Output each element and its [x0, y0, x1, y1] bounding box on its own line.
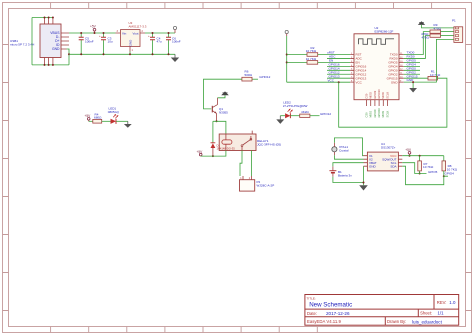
wire R4 to LED1	[102, 120, 111, 122]
svg-text:100nF: 100nF	[85, 40, 94, 44]
svg-text:MOSI: MOSI	[381, 111, 385, 118]
wire ground to LED2	[280, 115, 285, 117]
resistor R8 10.7K pullup	[442, 156, 458, 178]
svg-text:GPIO9: GPIO9	[373, 90, 377, 98]
svg-text:10 7KΩ: 10 7KΩ	[430, 73, 441, 77]
power flag +5V relay	[197, 150, 204, 156]
resistor R11 470	[421, 32, 441, 40]
svg-text:10 7KΩ: 10 7KΩ	[423, 165, 434, 169]
svg-text:JQC-3FF-HS (05): JQC-3FF-HS (05)	[257, 142, 281, 146]
svg-text:Bateria 3v: Bateria 3v	[338, 174, 352, 178]
resistor R5 500	[242, 69, 253, 81]
svg-text:+: +	[99, 34, 101, 38]
wire emitter to relay coil	[213, 121, 226, 134]
junction feed taps	[286, 54, 340, 84]
net label CS0 bottom	[364, 108, 389, 118]
svg-text:470Ω: 470Ω	[434, 26, 442, 30]
svg-text:luis_eduardoct: luis_eduardoct	[412, 319, 443, 324]
svg-text:1.0: 1.0	[449, 300, 456, 305]
svg-text:CS0: CS0	[364, 93, 368, 99]
svg-text:1/1: 1/1	[438, 311, 445, 316]
wire U4 GND down	[363, 166, 365, 185]
wire R11 to P1	[441, 35, 454, 37]
transistor Q1 N3055	[212, 98, 228, 122]
resistor R7 10.7K pullup	[418, 156, 434, 175]
svg-text:P1: P1	[452, 19, 456, 23]
wire LED1 to ground	[116, 120, 128, 122]
resistor R1 10.7K	[428, 70, 441, 81]
wire XTAL2 to X2	[334, 155, 363, 159]
wire SCL net	[402, 163, 426, 174]
net label GPIO12 base	[259, 75, 270, 79]
svg-text:MISO: MISO	[369, 111, 373, 118]
capacitor C5 100nF	[79, 32, 94, 55]
svg-text:TITLE:: TITLE:	[307, 296, 316, 300]
wire B1 to GND net	[333, 177, 364, 183]
pin 3V3 output	[173, 26, 176, 33]
wire TXD0	[404, 32, 430, 55]
ground LED1	[124, 121, 132, 128]
power flag +5V input	[90, 25, 97, 35]
wire EN tap	[287, 61, 307, 63]
svg-text:1N4148-DO-35: 1N4148-DO-35	[217, 147, 236, 151]
svg-text:MOSI: MOSI	[381, 92, 385, 99]
wire SDA net	[402, 166, 448, 185]
resistor R10 4k2	[300, 110, 310, 117]
net label EN	[329, 58, 333, 62]
wire LED2 to R10	[290, 115, 299, 117]
svg-text:Drawn By:: Drawn By:	[387, 319, 406, 324]
power flag VCC P1	[418, 21, 454, 28]
wire ground rail	[69, 53, 175, 55]
svg-text:SCLK: SCLK	[385, 92, 389, 99]
wire R10 to net	[310, 115, 320, 117]
svg-text:GPIO10: GPIO10	[377, 89, 381, 99]
svg-text:GND: GND	[129, 39, 133, 47]
battery B1 3v	[329, 166, 352, 177]
svg-text:GPIO5: GPIO5	[428, 170, 438, 174]
crystal XTAL1	[332, 143, 349, 155]
svg-text:2017-12-26: 2017-12-26	[326, 311, 350, 316]
svg-text:GND: GND	[391, 80, 399, 84]
svg-text:GPIO12: GPIO12	[320, 112, 331, 116]
wire GPIO16	[327, 62, 350, 66]
svg-text:10 7KΩ: 10 7KΩ	[306, 57, 317, 61]
svg-text:GPIO12: GPIO12	[259, 75, 270, 79]
connector P1 header	[452, 19, 463, 43]
wire GPIO0 stub	[404, 66, 420, 70]
wire P1 gnd row	[413, 39, 454, 82]
net label GPIO5 SCL	[428, 170, 438, 174]
wire +5V rail	[69, 32, 175, 34]
wire GPIO0 to R5	[252, 78, 258, 80]
svg-text:+: +	[148, 34, 150, 38]
LED D LED2 LT-2TSUHG	[283, 101, 308, 119]
capacitor C4 47u	[148, 32, 162, 55]
svg-text:Crystal: Crystal	[339, 149, 349, 153]
junction Q1 emitter	[216, 120, 218, 122]
wire GPIO5 stub	[404, 59, 420, 63]
svg-text:SCLK: SCLK	[385, 110, 389, 117]
wire USB shield loop	[32, 18, 69, 65]
svg-text:+5V: +5V	[90, 25, 97, 29]
wire GPIO4 stub	[404, 62, 420, 66]
svg-text:ADC: ADC	[329, 55, 336, 59]
wire +5V to R4	[89, 120, 93, 122]
wire relay coil return	[201, 151, 226, 157]
svg-text:100nF: 100nF	[172, 40, 181, 44]
wire ADC	[327, 55, 350, 59]
wire GPIO2 stub	[404, 70, 420, 74]
svg-text:500Ω: 500Ω	[245, 73, 253, 77]
junction USB ground	[68, 53, 70, 55]
svg-text:micro 5P 7.2 3.4H: micro 5P 7.2 3.4H	[10, 43, 34, 47]
svg-text:GPIO10: GPIO10	[377, 108, 381, 118]
junction GND row	[412, 81, 414, 83]
svg-text:REV:: REV:	[437, 300, 447, 305]
svg-text:GND: GND	[369, 164, 377, 168]
junction USB shield top	[44, 17, 54, 19]
pin EN/RST feed	[285, 30, 288, 36]
svg-text:AMS1117-3.3: AMS1117-3.3	[129, 25, 147, 29]
svg-text:4K2Ω: 4K2Ω	[301, 110, 309, 114]
net label GPIO12 LED2	[320, 112, 331, 116]
capacitor C6 100nF	[166, 32, 181, 55]
power flag +5V RTC	[405, 148, 412, 157]
svg-text:CS0: CS0	[364, 112, 368, 118]
wire GND ESP	[404, 78, 414, 88]
svg-text:10 7KΩ: 10 7KΩ	[306, 49, 317, 53]
wire R1 to VCC net	[339, 78, 447, 127]
LED D LED1 0805G	[108, 107, 119, 124]
relay RELAY1 JQC-3F	[219, 131, 281, 151]
svg-text:WJ28C-A-2P: WJ28C-A-2P	[257, 184, 275, 188]
wire GPIO15 to R1	[404, 74, 428, 78]
ground power rail	[171, 54, 179, 62]
ground ESP	[409, 88, 417, 93]
wire relay contacts to P2	[240, 151, 251, 177]
svg-text:ESP8266-12F: ESP8266-12F	[375, 30, 394, 34]
wire R3 to EN	[318, 61, 351, 63]
resistor R3 10.7K	[306, 57, 318, 64]
ground U4	[359, 185, 368, 190]
power flag VCC collector	[218, 91, 229, 97]
svg-text:MISO: MISO	[369, 92, 373, 99]
regulator U3 AMS1117-3.3	[116, 21, 147, 55]
svg-text:New Schematic: New Schematic	[309, 302, 352, 309]
resistor R9 470	[430, 23, 442, 34]
junction USB shield bottom	[44, 64, 54, 66]
svg-text:10u: 10u	[108, 40, 113, 44]
svg-text:VCC: VCC	[356, 80, 363, 84]
wire RXD0	[404, 36, 430, 59]
net label VCC	[328, 78, 335, 82]
module U2 ESP8266-12F	[350, 26, 404, 106]
svg-text:Vout: Vout	[132, 31, 138, 35]
svg-text:680Ω: 680Ω	[94, 116, 102, 120]
capacitor C3 10u	[99, 32, 113, 55]
wire R2 to RST	[318, 54, 351, 56]
svg-text:GPIO4: GPIO4	[445, 172, 455, 176]
wire R9 to P1	[441, 31, 454, 33]
resistor R4 680	[93, 113, 102, 124]
diode D1 label	[217, 143, 236, 150]
svg-text:SDA: SDA	[390, 164, 396, 168]
wire GPIO12	[327, 70, 350, 74]
svg-text:Sheet:: Sheet:	[420, 311, 432, 316]
svg-text:Vin: Vin	[122, 31, 127, 35]
svg-text:47u: 47u	[157, 40, 162, 44]
wire R5 to Q1 base	[204, 79, 242, 109]
wire GPIO14	[327, 66, 350, 70]
net label GPIO4 SDA	[445, 172, 455, 176]
wire feed vertical	[287, 36, 351, 82]
IC U4 DS1307Z+	[364, 142, 403, 171]
power flag +5V LED1	[85, 114, 92, 121]
wire RST tap	[287, 54, 307, 56]
svg-text:VCC: VCC	[328, 78, 335, 82]
svg-text:Date:: Date:	[307, 311, 317, 316]
wire B1 to VBAT	[333, 163, 364, 167]
connector P2 WJ28C-A-2P	[240, 176, 275, 191]
svg-text:GPIO9: GPIO9	[373, 109, 377, 117]
diode D1 1N4148	[211, 121, 216, 157]
svg-text:GPIO13: GPIO13	[329, 74, 340, 78]
net label uRST	[327, 51, 335, 55]
wire GPIO13	[327, 74, 350, 78]
svg-text:N3055: N3055	[219, 110, 228, 114]
wire XTAL1 to X1	[334, 138, 363, 156]
svg-text:470Ω: 470Ω	[422, 35, 430, 39]
wire VCC rail RTC	[402, 155, 444, 157]
svg-text:EasyEDA V4.11.9: EasyEDA V4.11.9	[307, 319, 341, 324]
connector USB1 micro 5P	[10, 18, 69, 65]
resistor R2 10.7K	[306, 46, 318, 56]
svg-text:0805G(): 0805G()	[108, 110, 119, 114]
svg-text:DS1307Z+: DS1307Z+	[381, 146, 396, 150]
svg-text:LT-2TSUHG@RW: LT-2TSUHG@RW	[283, 104, 308, 108]
ground LED2	[276, 116, 284, 124]
svg-text:GND: GND	[52, 47, 60, 51]
